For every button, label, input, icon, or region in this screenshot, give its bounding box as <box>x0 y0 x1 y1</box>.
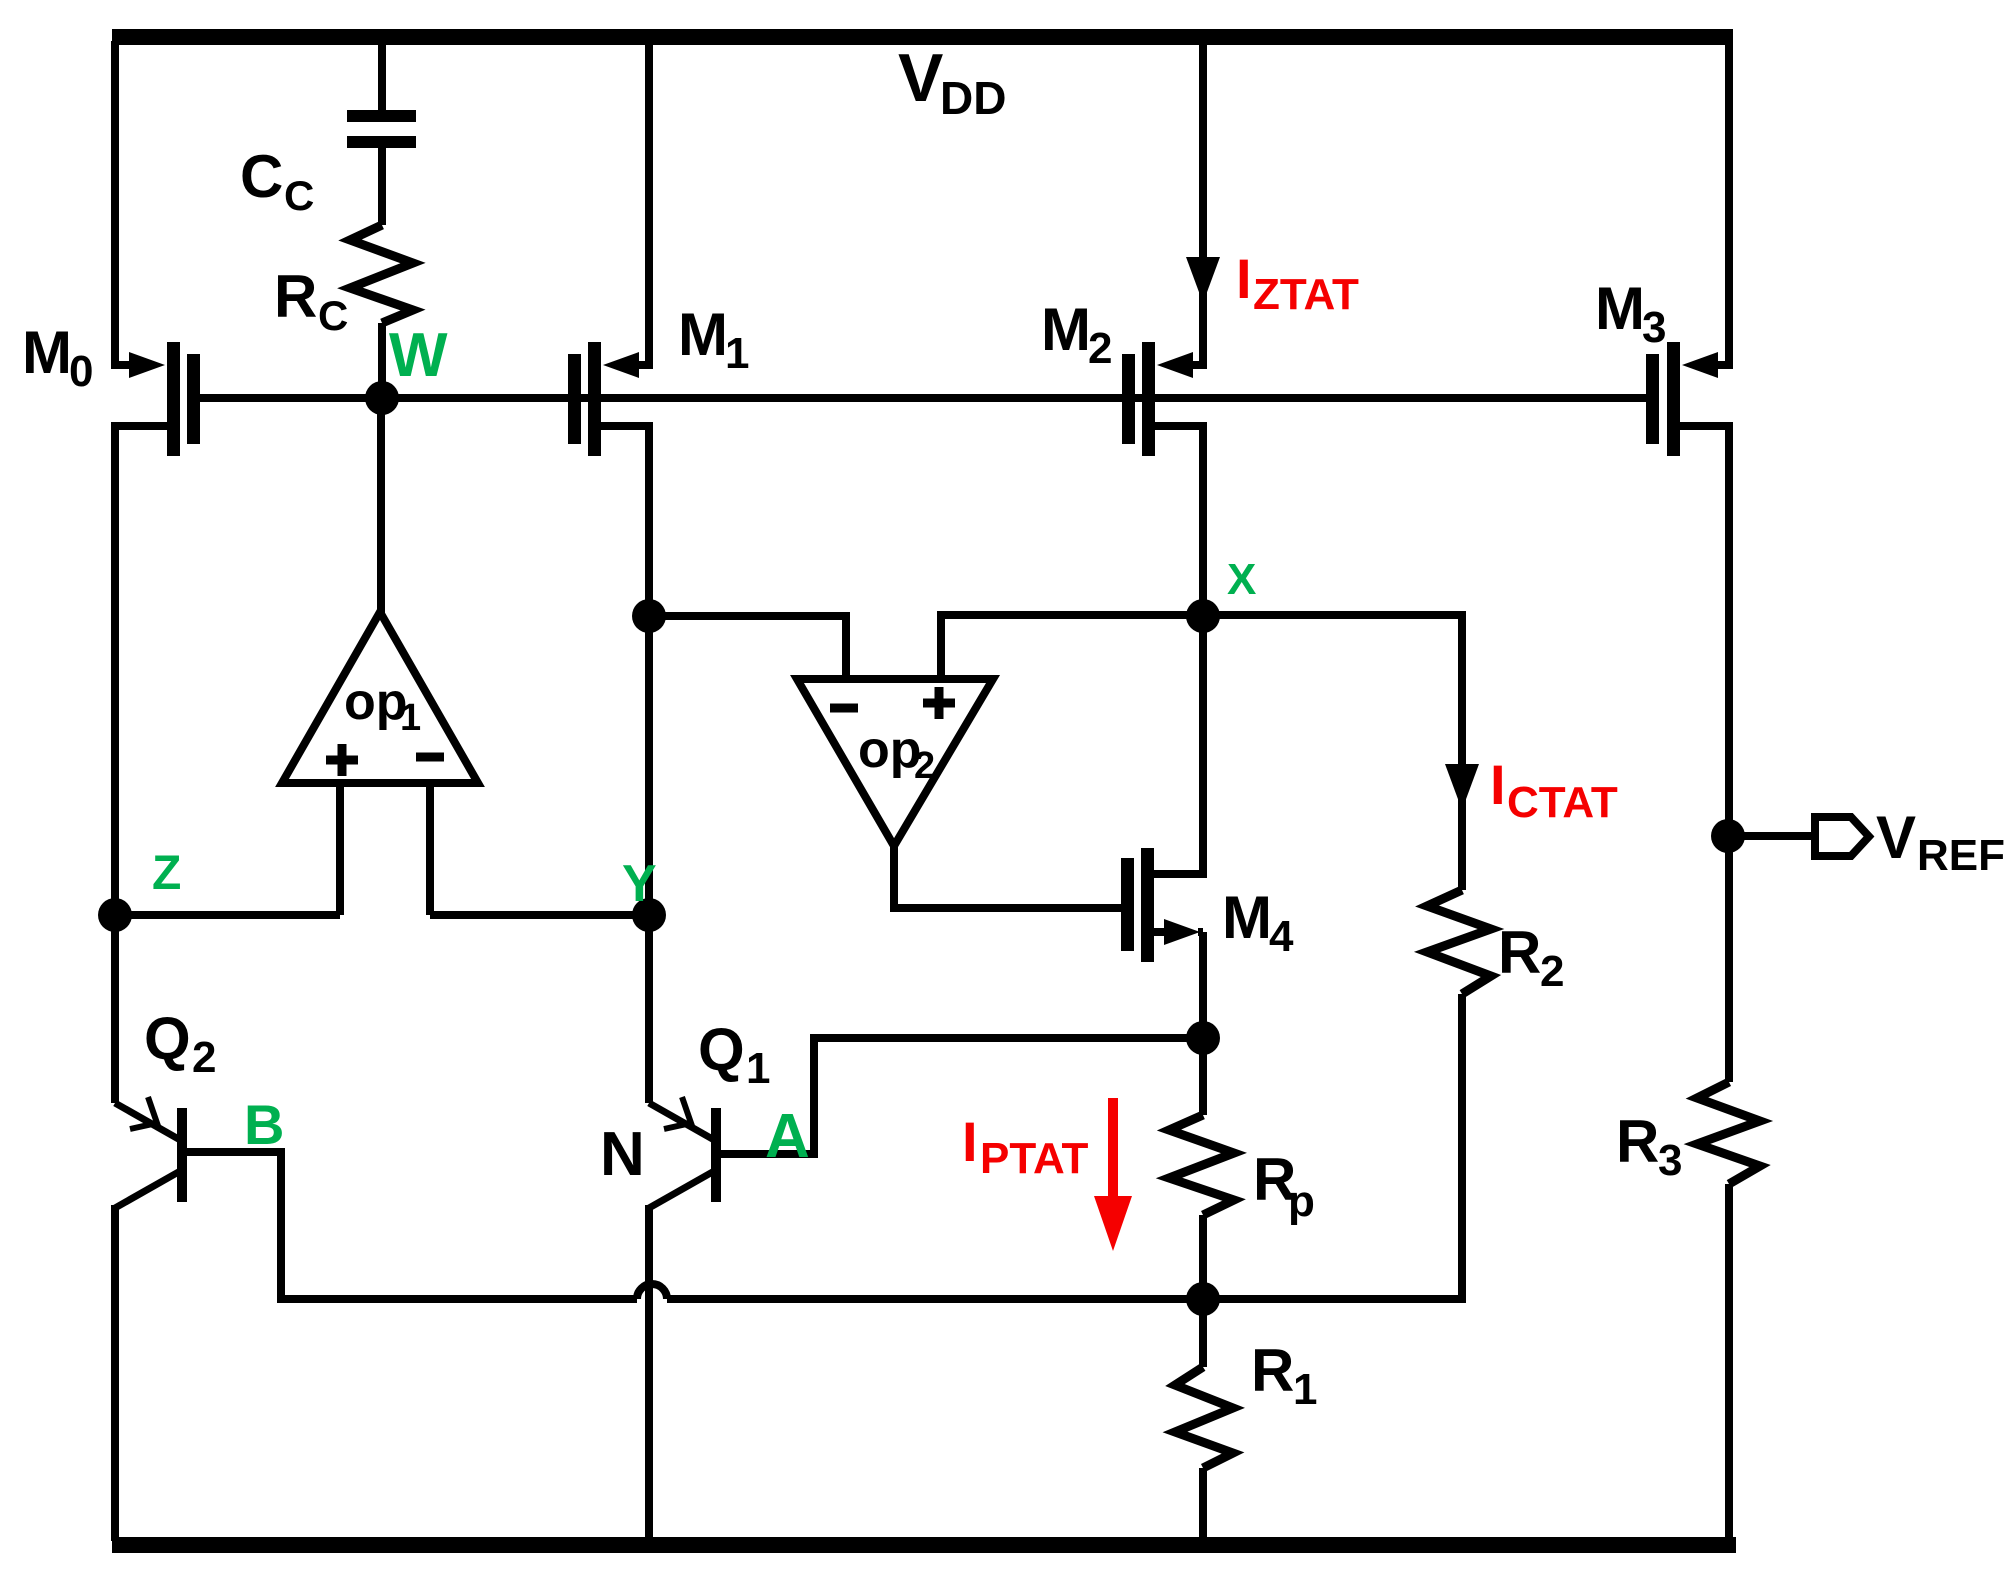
transistor M3 <box>1646 342 1733 456</box>
svg-text:Q: Q <box>698 1016 745 1083</box>
label R3 <box>1616 1108 1682 1185</box>
wire: M4 source down to Rp <box>1199 932 1207 1115</box>
svg-text:R: R <box>1251 1337 1294 1404</box>
svg-text:M: M <box>678 301 728 368</box>
current arrow IZTAT <box>1186 257 1220 303</box>
svg-text:CTAT: CTAT <box>1507 778 1618 827</box>
wire: VDD to M2 source <box>1199 41 1207 365</box>
svg-text:p: p <box>1288 1177 1315 1226</box>
svg-text:M: M <box>22 319 72 386</box>
label Q1 <box>698 1016 770 1093</box>
svg-text:M: M <box>1595 275 1645 342</box>
svg-text:A: A <box>765 1102 810 1171</box>
wire: W to op1 output <box>377 398 385 616</box>
node Z <box>98 847 181 932</box>
wire: op2 output to M4 gate <box>894 846 1121 908</box>
svg-text:R: R <box>1616 1108 1659 1175</box>
svg-text:R: R <box>274 263 317 330</box>
svg-text:I: I <box>962 1110 978 1173</box>
resistor R2 <box>1427 890 1491 994</box>
wire: Q1 base to node A junction <box>721 1038 1203 1154</box>
resistor R1 <box>1175 1299 1233 1541</box>
label Q2 <box>144 1005 216 1082</box>
svg-text:2: 2 <box>1088 324 1112 373</box>
svg-text:Y: Y <box>622 855 657 913</box>
transistor Q2 <box>115 1097 187 1208</box>
op-amp op1 <box>282 612 478 915</box>
label CC <box>240 143 314 219</box>
wire: Q2 collector to ground <box>111 1205 119 1541</box>
current arrow ICTAT <box>1445 764 1479 810</box>
svg-text:DD: DD <box>940 72 1006 124</box>
svg-text:M: M <box>1041 296 1091 363</box>
label IPTAT <box>962 1110 1088 1183</box>
svg-text:X: X <box>1227 555 1256 604</box>
transistor M2 <box>1122 342 1207 456</box>
svg-text:C: C <box>318 292 348 339</box>
label ICTAT <box>1490 753 1618 827</box>
label IZTAT <box>1236 247 1359 319</box>
label M1 <box>678 301 749 378</box>
junction M1 drain <box>632 599 666 633</box>
svg-text:PTAT: PTAT <box>980 1134 1088 1183</box>
svg-text:REF: REF <box>1917 831 2005 880</box>
wire: op2 + input to node X <box>941 615 1203 679</box>
resistor Rp <box>1169 1115 1234 1299</box>
svg-text:ZTAT: ZTAT <box>1253 270 1359 319</box>
label op1 <box>344 673 421 739</box>
label R1 <box>1251 1337 1317 1414</box>
svg-text:C: C <box>284 172 314 219</box>
label RC <box>274 263 348 339</box>
svg-text:1: 1 <box>1293 1365 1317 1414</box>
wire: hop to R2 bottom <box>667 1295 1466 1303</box>
label M2 <box>1041 296 1112 373</box>
svg-text:R: R <box>1498 919 1541 986</box>
svg-text:0: 0 <box>69 347 93 396</box>
label Rp <box>1253 1146 1315 1226</box>
svg-text:V: V <box>898 40 943 116</box>
resistor R3 <box>1697 1082 1760 1541</box>
svg-text:1: 1 <box>746 1044 770 1093</box>
node X <box>1186 555 1256 633</box>
wire: VDD to M1 source <box>645 41 653 365</box>
svg-text:2: 2 <box>192 1033 216 1082</box>
wire: M0 drain down left column <box>111 426 119 1103</box>
svg-text:1: 1 <box>400 697 421 739</box>
svg-text:3: 3 <box>1642 303 1666 352</box>
svg-text:2: 2 <box>914 745 935 787</box>
output pin VREF <box>1815 817 1869 856</box>
svg-text:I: I <box>1236 247 1252 310</box>
label M3 <box>1595 275 1666 352</box>
capacitor CC <box>347 41 416 148</box>
VDD rail <box>112 29 1733 45</box>
svg-text:op: op <box>858 721 922 779</box>
svg-text:3: 3 <box>1658 1136 1682 1185</box>
transistor M4 <box>1121 848 1207 962</box>
label op2 <box>858 721 935 787</box>
svg-text:1: 1 <box>725 329 749 378</box>
wire: M3 drain down to R3 <box>1725 426 1733 1082</box>
wire: VREF node to output pin <box>1728 832 1815 840</box>
junction Rp bottom <box>1186 1282 1220 1316</box>
VDD label <box>898 40 1006 124</box>
svg-text:M: M <box>1222 884 1272 951</box>
svg-text:Q: Q <box>144 1005 191 1072</box>
op-amp op2 <box>797 679 993 846</box>
svg-text:op: op <box>344 673 408 731</box>
node W <box>365 321 448 415</box>
svg-text:N: N <box>600 1120 645 1189</box>
ground rail <box>112 1537 1736 1553</box>
wire: node Z to op1 + input <box>115 911 340 919</box>
transistor Q1 <box>649 1097 721 1208</box>
wire: VDD to M0 source <box>111 41 119 365</box>
svg-text:4: 4 <box>1269 912 1294 961</box>
svg-text:2: 2 <box>1540 947 1564 996</box>
gate bus wire W <box>193 394 1653 402</box>
label M0 <box>22 319 93 396</box>
wire: op1 - input to node Y <box>430 911 649 919</box>
svg-text:C: C <box>240 143 283 210</box>
svg-text:I: I <box>1490 753 1506 816</box>
transistor M0 <box>111 342 200 456</box>
transistor M1 <box>568 342 653 456</box>
svg-text:W: W <box>389 321 448 390</box>
wire: VDD to M3 source <box>1725 41 1733 365</box>
label R2 <box>1498 919 1564 996</box>
label M4 <box>1222 884 1294 961</box>
wire: Q2 base runner to R1 top (node B net) <box>187 1152 637 1299</box>
resistor RC <box>350 148 413 398</box>
wire: node X to R2 top <box>1203 615 1462 890</box>
wire: M1 drain to op2 - input <box>649 616 846 679</box>
node Y <box>622 855 666 932</box>
wire: M2 drain down to M4 drain <box>1199 426 1207 874</box>
current arrow IPTAT (red) <box>1094 1098 1132 1251</box>
svg-text:B: B <box>244 1093 284 1156</box>
wire: R2 bottom lead <box>1458 994 1466 1299</box>
wire: M1 drain down to Q1 <box>645 426 653 1103</box>
label VREF <box>1876 804 2005 880</box>
wire: Q1 collector to ground <box>645 1205 653 1541</box>
junction node A column <box>1186 1021 1220 1055</box>
svg-text:V: V <box>1876 804 1916 871</box>
wire hop over Q1 collector <box>637 1284 667 1299</box>
node VREF <box>1711 819 1745 853</box>
svg-text:Z: Z <box>152 847 181 900</box>
